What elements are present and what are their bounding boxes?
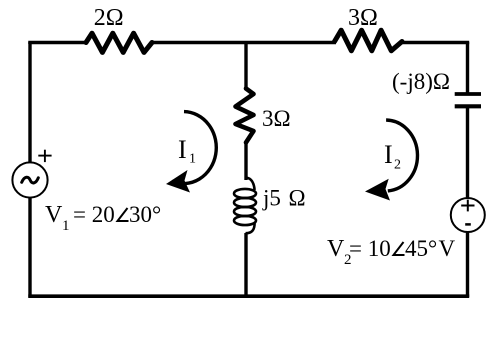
svg-text:30°: 30° (129, 202, 161, 227)
source V1 circle (12, 162, 47, 197)
wire top-middle segment (152, 41, 336, 45)
wire middle branch mid (244, 142, 247, 180)
label V1 = 20&ang;30deg (45, 202, 161, 234)
mesh current I1 arrow arc (172, 112, 217, 184)
svg-text:I: I (384, 140, 393, 169)
mesh current I2 arrowhead (365, 179, 390, 201)
mesh current I1 arrowhead (166, 170, 190, 193)
svg-text:45°: 45° (405, 236, 437, 261)
svg-text:3Ω: 3Ω (348, 5, 378, 31)
svg-text:(-j8)Ω: (-j8)Ω (392, 69, 450, 94)
resistor R 2ohm (86, 33, 152, 52)
wire top-left segment (30, 43, 86, 45)
resistor R 3ohm middle (vertical) (236, 89, 254, 143)
source V1 sine symbol (22, 177, 39, 183)
capacitor (-j8) plates (455, 94, 481, 106)
wire right branch lower (466, 232, 469, 298)
svg-text:2Ω: 2Ω (94, 5, 124, 31)
svg-text:1: 1 (62, 218, 70, 234)
source V2 minus sign (465, 223, 471, 226)
svg-text:V: V (45, 202, 63, 228)
svg-text:3Ω: 3Ω (262, 106, 291, 131)
label V2 = 10&ang;45deg V (327, 236, 456, 268)
svg-text:1: 1 (189, 152, 196, 167)
wire middle branch upper (244, 42, 247, 90)
svg-text:V: V (327, 236, 345, 262)
source V2 plus sign (461, 200, 474, 212)
source V1 plus sign (38, 150, 51, 162)
wire left branch upper (28, 42, 31, 163)
svg-text:= 10: = 10 (349, 236, 391, 261)
wire right branch upper (466, 42, 469, 94)
source V2 circle (451, 198, 485, 232)
svg-text:= 20: = 20 (73, 202, 115, 227)
wire right branch mid (466, 106, 469, 198)
angle symbol for V2 label (394, 242, 405, 255)
inductor j5 coil (234, 178, 256, 234)
svg-text:2: 2 (394, 158, 401, 173)
svg-text:Ω: Ω (289, 186, 306, 211)
wire middle branch lower (244, 233, 247, 298)
wire left branch lower (28, 198, 31, 298)
svg-text:V: V (439, 236, 456, 261)
wire top-right segment (401, 41, 469, 45)
svg-text:I: I (178, 135, 187, 164)
wire bottom (28, 294, 469, 298)
resistor R 3ohm top (335, 30, 403, 51)
angle symbol for V1 label (118, 208, 129, 221)
svg-text:j5: j5 (262, 186, 281, 211)
mesh current I2 arrow arc (386, 120, 417, 191)
